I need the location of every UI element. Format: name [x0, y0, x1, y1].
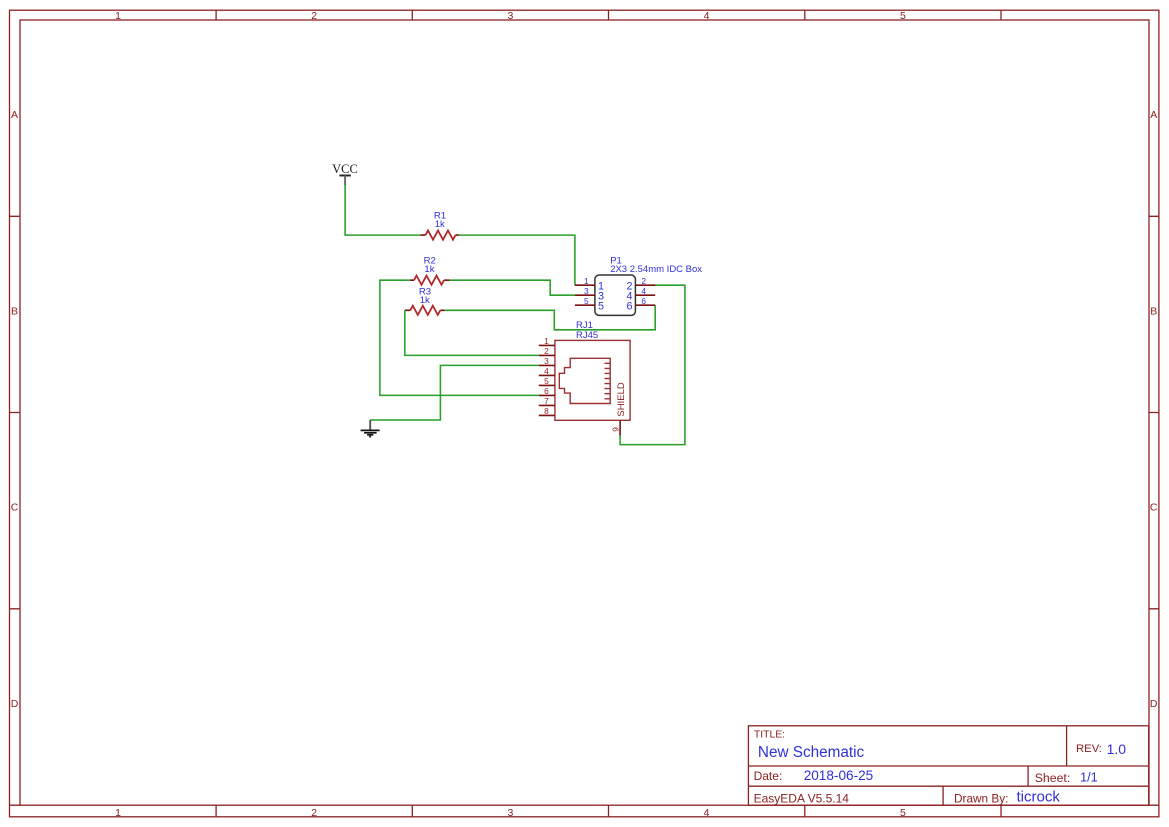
pin 4 (RJ1) [539, 366, 555, 376]
svg-text:2: 2 [311, 10, 317, 22]
svg-text:3: 3 [584, 286, 589, 296]
svg-text:7: 7 [544, 396, 549, 406]
pin 3 (RJ1) [539, 356, 555, 366]
svg-text:2X3 2.54mm IDC Box: 2X3 2.54mm IDC Box [610, 264, 702, 275]
svg-text:1: 1 [584, 276, 589, 286]
svg-text:3: 3 [507, 10, 513, 22]
pin 3 (P1) [575, 286, 604, 302]
wire VCC to R1 [345, 185, 420, 235]
svg-text:2: 2 [641, 276, 646, 286]
svg-text:6: 6 [641, 296, 646, 306]
wire ground to RJ1 pin 3 [370, 365, 539, 420]
svg-text:4: 4 [704, 10, 710, 22]
svg-text:6: 6 [626, 300, 632, 312]
svg-text:1: 1 [115, 807, 121, 819]
svg-text:6: 6 [544, 386, 549, 396]
wire R1 to P1 pin 1 [459, 235, 575, 285]
svg-text:D: D [1150, 698, 1158, 710]
pin 2 (P1) [626, 276, 655, 292]
svg-text:EasyEDA V5.5.14: EasyEDA V5.5.14 [754, 791, 850, 805]
svg-text:1k: 1k [435, 219, 445, 230]
wire R2 to P1 pin 3 [450, 280, 575, 295]
pin 7 (RJ1) [539, 396, 555, 406]
pin 4 (P1) [626, 286, 655, 302]
svg-text:4: 4 [544, 366, 549, 376]
wire R3 to P1 pin 6 [445, 305, 655, 330]
svg-text:B: B [11, 306, 18, 318]
svg-text:1: 1 [115, 10, 121, 22]
svg-text:New Schematic: New Schematic [758, 744, 865, 761]
svg-text:TITLE:: TITLE: [754, 729, 785, 740]
svg-text:5: 5 [598, 300, 604, 312]
svg-text:RJ45: RJ45 [576, 330, 598, 341]
title block [748, 726, 1148, 805]
svg-text:1k: 1k [420, 295, 430, 306]
svg-text:REV:: REV: [1076, 743, 1102, 755]
svg-text:3: 3 [507, 807, 513, 819]
svg-text:2: 2 [544, 346, 549, 356]
svg-text:9: 9 [610, 427, 620, 432]
connector P1 [595, 275, 636, 315]
svg-text:Date:: Date: [754, 769, 783, 783]
wire R2 to RJ1 pin 6 [380, 280, 539, 395]
resistor R2 [410, 276, 450, 285]
resistor R3 [405, 306, 445, 315]
wire P1 pin 2 to RJ1 shield [620, 285, 685, 444]
ground [361, 420, 380, 437]
connector RJ1 [555, 340, 630, 420]
resistor R1 [420, 231, 459, 240]
svg-text:A: A [11, 109, 18, 121]
pin 5 (RJ1) [539, 376, 555, 386]
svg-text:C: C [11, 502, 19, 514]
pin 2 (RJ1) [539, 346, 555, 356]
svg-text:2018-06-25: 2018-06-25 [804, 768, 874, 783]
svg-text:ticrock: ticrock [1017, 788, 1061, 805]
svg-text:Drawn By:: Drawn By: [954, 791, 1008, 805]
svg-text:VCC: VCC [332, 162, 358, 176]
svg-text:8: 8 [544, 406, 549, 416]
svg-text:4: 4 [704, 807, 710, 819]
svg-text:A: A [1150, 109, 1157, 121]
pin 1 (RJ1) [539, 336, 555, 346]
wire R3 to RJ1 pin 2 [405, 310, 539, 355]
svg-text:SHIELD: SHIELD [616, 382, 627, 416]
svg-text:1/1: 1/1 [1080, 770, 1098, 785]
pin 1 (P1) [575, 276, 604, 292]
pin 8 (RJ1) [539, 406, 555, 416]
svg-text:1.0: 1.0 [1107, 741, 1127, 757]
svg-text:Sheet:: Sheet: [1035, 771, 1071, 785]
pin 9 SHIELD (RJ1) [610, 382, 627, 435]
svg-text:5: 5 [900, 807, 906, 819]
power flag VCC [332, 162, 358, 185]
svg-text:1: 1 [544, 336, 549, 346]
pin 6 (RJ1) [539, 386, 555, 396]
svg-text:5: 5 [544, 376, 549, 386]
svg-text:4: 4 [641, 286, 646, 296]
svg-text:1k: 1k [424, 264, 434, 275]
svg-text:D: D [11, 698, 19, 710]
svg-text:5: 5 [900, 10, 906, 22]
svg-text:5: 5 [584, 296, 589, 306]
svg-text:2: 2 [311, 807, 317, 819]
svg-text:B: B [1150, 306, 1157, 318]
svg-text:C: C [1150, 502, 1158, 514]
pin 5 (P1) [575, 296, 604, 312]
pin 6 (P1) [626, 296, 655, 312]
svg-text:3: 3 [544, 356, 549, 366]
